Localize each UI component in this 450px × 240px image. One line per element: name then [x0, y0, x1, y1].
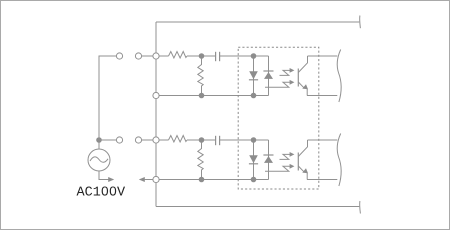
wire node up to ch1 terminal	[99, 56, 116, 140]
wire jack to bus ch2	[142, 139, 153, 141]
diode D3 down	[249, 155, 258, 164]
wire bottom supply rail	[156, 206, 359, 208]
terminal plug ch1 left	[116, 53, 122, 59]
resistor R2 vertical	[198, 58, 203, 94]
AC source V1	[88, 149, 110, 171]
cable squiggle ch1	[337, 50, 341, 103]
light arrow lower ch1	[265, 80, 294, 87]
resistor R3	[169, 136, 188, 143]
phototransistor Q2	[298, 140, 308, 180]
wire AC top lead	[98, 140, 100, 149]
wire jack to bus ch1	[142, 55, 153, 57]
wire ch1 bottom rail	[159, 95, 268, 97]
wire C1 to diode network ch1	[220, 55, 269, 57]
node bus ch1 top	[153, 53, 159, 59]
node junction R1 R2 C1	[199, 53, 205, 59]
wire ch2 bottom rail	[159, 179, 268, 181]
resistor R4 vertical	[198, 142, 203, 178]
wire collector out ch2	[308, 139, 338, 141]
wire diode branch left ch1	[253, 56, 255, 96]
wire node to ch2 terminal	[99, 139, 116, 141]
arrowhead return from bus left	[139, 177, 145, 182]
wire diode branch right ch2	[268, 140, 270, 180]
wire emitter out ch2	[307, 179, 337, 181]
wire left vertical bus	[155, 22, 157, 207]
wire diode branch left ch2	[253, 140, 255, 180]
capacitor C2	[216, 136, 220, 145]
wire emitter out ch1	[307, 95, 337, 97]
light arrow lower ch2	[265, 164, 294, 171]
wire collector out ch1	[308, 55, 338, 57]
cable squiggle ch2	[337, 134, 341, 187]
LED D4 up	[263, 155, 273, 163]
label AC100V	[77, 186, 126, 195]
wire bus to R1	[159, 55, 168, 57]
resistor R1	[169, 52, 188, 59]
terminal jack ch1	[135, 53, 141, 59]
wire arrow to bus	[144, 179, 153, 181]
node bus ch2 top	[153, 137, 159, 143]
wire R3 to C2	[187, 139, 215, 141]
phototransistor Q1	[298, 56, 308, 96]
wire top supply rail	[156, 21, 359, 23]
wire bus to R3	[159, 139, 168, 141]
terminal tick top rail	[359, 16, 362, 29]
node cathode bottom ch2	[251, 177, 257, 183]
terminal jack ch2	[135, 137, 141, 143]
capacitor C1	[216, 52, 220, 61]
node bus ch2 bottom	[153, 176, 159, 182]
terminal tick bottom rail	[359, 201, 362, 214]
node junction R3 R4 C2	[199, 137, 205, 143]
wire AC bottom lead with arrow	[99, 171, 109, 180]
terminal plug ch2 left	[116, 137, 122, 143]
arrowhead AC return right	[108, 177, 114, 182]
LED D2 up	[263, 71, 273, 79]
node cathode bottom ch1	[251, 93, 257, 99]
light arrow upper ch2	[280, 152, 295, 159]
node bus ch1 bottom	[153, 92, 159, 98]
diode D1 down	[249, 71, 258, 80]
light arrow upper ch1	[280, 68, 295, 75]
node R2 bottom	[199, 93, 205, 99]
wire R1 to C1	[187, 55, 215, 57]
node anode top ch2	[251, 137, 257, 143]
wire diode branch right ch1	[268, 56, 270, 96]
node anode top ch1	[251, 53, 257, 59]
node R4 bottom	[199, 177, 205, 183]
dotted box photocoupler outline	[238, 47, 319, 189]
junction node AC hot	[96, 137, 102, 143]
wire C2 to diode network ch2	[220, 139, 269, 141]
